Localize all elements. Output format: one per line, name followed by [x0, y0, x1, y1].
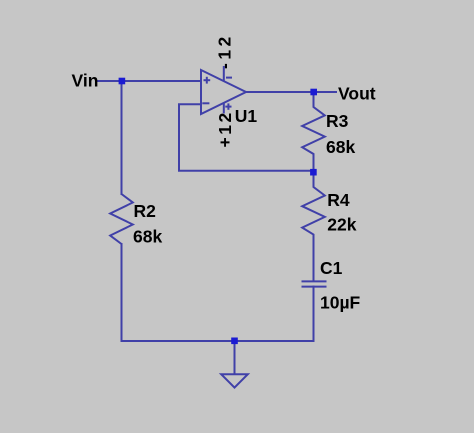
op-amp U1	[201, 66, 246, 114]
node Vin junction	[119, 78, 126, 85]
wire non-inverting input (Vin node to op-amp +)	[122, 80, 202, 82]
svg-text:R2: R2	[134, 201, 157, 221]
wire bottom rail	[122, 340, 314, 342]
capacitor C1	[302, 281, 327, 286]
svg-text:R3: R3	[326, 111, 349, 131]
wire Vin label stub	[97, 80, 122, 82]
svg-text:+12: +12	[215, 110, 235, 147]
wire C1 to bottom rail	[313, 287, 315, 341]
resistor R2	[110, 194, 133, 244]
svg-text:R4: R4	[327, 190, 350, 210]
wire left rail upper (Vin node to R2)	[121, 81, 123, 194]
svg-text:68k: 68k	[326, 137, 355, 157]
resistor R3	[302, 92, 325, 171]
node Vout junction	[310, 89, 317, 96]
svg-text:C1: C1	[320, 258, 343, 278]
svg-text:Vout: Vout	[338, 84, 376, 104]
wire op-amp output to Vout	[246, 91, 337, 93]
svg-text:10µF: 10µF	[320, 293, 361, 313]
svg-text:22k: 22k	[327, 215, 356, 235]
svg-text:U1: U1	[235, 106, 258, 126]
resistor R4	[302, 171, 325, 281]
svg-text:Vin: Vin	[72, 71, 99, 91]
node R3-R4 junction	[310, 169, 317, 176]
wire feedback (inverting input to R3/R4 node)	[179, 104, 314, 171]
svg-text:-12: -12	[215, 33, 235, 69]
svg-text:68k: 68k	[133, 227, 162, 247]
wire left rail lower (R2 to bottom rail)	[121, 244, 123, 341]
node ground junction	[231, 338, 238, 345]
ground	[221, 341, 248, 388]
